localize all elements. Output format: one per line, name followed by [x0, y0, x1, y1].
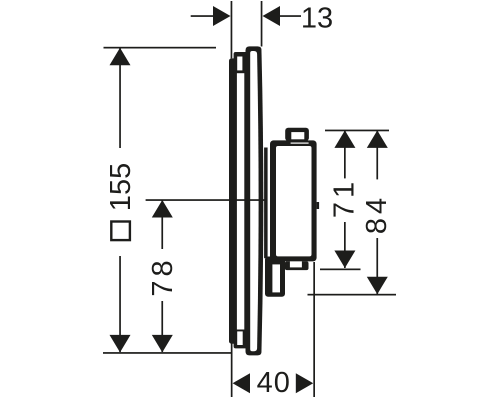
right wall bump: [317, 202, 320, 209]
top cap window (white): [291, 132, 304, 139]
ext line 71 bottom: [320, 269, 361, 271]
clip window bottom (white): [237, 331, 243, 345]
dim 84 line top segment: [376, 130, 378, 179]
top cap outline: [285, 128, 309, 141]
dim 155 arrow down: [110, 335, 131, 353]
main window (white): [237, 73, 244, 329]
dim 155 arrow up: [110, 48, 131, 66]
back bar (wall flange): [229, 58, 237, 343]
dim 40 right arrow: [296, 373, 313, 393]
handle body outline: [270, 140, 317, 261]
dim 155 line bottom segment: [119, 256, 121, 352]
dim 71 arrow down: [334, 251, 355, 269]
bracket below handle: [265, 257, 285, 297]
ext line 155/78 bottom: [103, 352, 232, 354]
dim 78 arrow up: [152, 200, 173, 218]
ext line 13 left: [231, 1, 233, 58]
svg-text:78: 78: [147, 256, 179, 296]
ext line 13 right: [261, 1, 263, 47]
square symbol: [111, 222, 130, 241]
dim 78 line top segment: [161, 200, 163, 249]
dim 71 line top segment: [344, 130, 346, 178]
bottom cap: [285, 261, 309, 270]
ext line 155 top: [104, 47, 217, 49]
dim 78 arrow down: [152, 335, 173, 353]
svg-text:40: 40: [257, 367, 291, 399]
handle interior (white): [276, 146, 312, 256]
front plate interior (white): [250, 51, 258, 351]
svg-text:71: 71: [329, 178, 361, 218]
ext line 40 left: [231, 344, 233, 398]
dim 40 left arrow: [233, 373, 250, 393]
bracket interior (white): [272, 264, 280, 292]
clip window top (white): [237, 57, 242, 71]
dim 13 right arrow: [263, 6, 281, 26]
dim 71 line bottom segment: [344, 222, 346, 268]
ext line 84 bottom: [308, 294, 397, 296]
dim 155 line top segment: [119, 48, 121, 148]
svg-text:155: 155: [105, 163, 137, 211]
shoulder line (white): [291, 143, 309, 144]
ext line 71/84 top: [325, 130, 389, 132]
bottom cap notch (white): [290, 261, 302, 267]
ext line 40 right: [313, 262, 315, 397]
dim 78 line bottom segment: [161, 301, 163, 352]
front plate outline: [246, 46, 264, 355]
stem bar: [264, 148, 268, 259]
dim 84 line bottom segment: [376, 238, 378, 294]
middle layer (mount housing): [234, 52, 250, 348]
svg-text:84: 84: [361, 194, 393, 234]
ext line 78 top: [146, 199, 266, 201]
dim 13 left arrow: [213, 6, 231, 26]
dim 13 right line: [280, 15, 301, 17]
dim 84 arrow down: [367, 277, 388, 295]
dim 84 arrow up: [367, 130, 388, 148]
dim 71 arrow up: [334, 130, 355, 148]
svg-text:13: 13: [301, 3, 333, 35]
dim 13 left line: [191, 15, 214, 17]
